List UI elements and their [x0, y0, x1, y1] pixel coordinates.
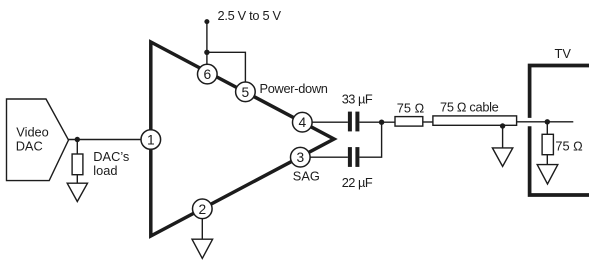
wire: node down to TV resistor [546, 122, 548, 135]
svg-text:75 Ω cable: 75 Ω cable [440, 100, 499, 115]
ground: cable shield [492, 148, 512, 167]
junction: TV input node [545, 119, 550, 124]
svg-text:3: 3 [296, 150, 304, 165]
pin 2 [193, 199, 213, 219]
svg-text:2.5 V to 5 V: 2.5 V to 5 V [218, 8, 282, 23]
wire: cable to TV [517, 121, 574, 123]
junction: output node [379, 120, 384, 125]
svg-text:Power-down: Power-down [260, 81, 328, 96]
pin 1 [141, 130, 161, 150]
wire: pin 2 to ground [201, 209, 203, 239]
wire: node down to load resistor [76, 140, 78, 155]
svg-text:SAG: SAG [293, 168, 320, 183]
svg-text:DAC: DAC [16, 138, 43, 153]
capacitor C1 33uF [348, 112, 352, 132]
op-amp U1 triangle [151, 42, 334, 236]
node: cable shield dot [500, 123, 505, 128]
pin 4 [293, 112, 313, 132]
resistor: DAC's load [72, 154, 83, 175]
resistor R2 75 ohm (TV) [542, 134, 553, 154]
svg-text:22 µF: 22 µF [342, 175, 373, 190]
cable: 75 ohm cable box [433, 116, 517, 125]
pin 5 [236, 82, 256, 102]
svg-text:6: 6 [203, 67, 211, 82]
svg-text:5: 5 [242, 85, 250, 100]
svg-text:2: 2 [198, 202, 206, 217]
supply node dot 2.5V-5V [204, 19, 209, 24]
wire: load resistor to ground [76, 175, 78, 184]
resistor R1 75 ohm [395, 117, 423, 127]
wire: supply down to pin 6 [206, 22, 208, 75]
ground: TV [537, 165, 558, 184]
svg-text:75 Ω: 75 Ω [555, 139, 583, 154]
wire: 33uF to 75 ohm resistor [359, 121, 395, 123]
svg-text:75 Ω: 75 Ω [397, 100, 425, 115]
node: DAC output junction dot [75, 137, 80, 142]
junction: supply branch [204, 50, 209, 55]
wire: shield to ground [502, 126, 504, 148]
TV box upper part [530, 66, 589, 118]
ground: below DAC's load [67, 183, 87, 201]
wire: pin 4 to 33uF [302, 121, 348, 123]
svg-text:TV: TV [555, 46, 572, 61]
svg-text:33 µF: 33 µF [342, 92, 373, 107]
wire: 22uF up to junction [359, 122, 381, 157]
wire: pin 3 to 22uF [300, 156, 348, 158]
svg-text:load: load [93, 163, 117, 178]
svg-text:1: 1 [147, 133, 155, 148]
wire: DAC output to pin 1 [69, 139, 151, 141]
wire: TV resistor to ground [546, 155, 548, 165]
svg-text:4: 4 [298, 115, 306, 130]
video DAC block [7, 99, 69, 181]
TV box lower part [530, 126, 589, 195]
pin 3 [291, 147, 311, 167]
capacitor C2 22uF [348, 147, 352, 167]
wire: R1 to cable [423, 121, 433, 123]
wire: branch to pin 5 [207, 52, 246, 92]
svg-text:Video: Video [16, 124, 49, 139]
ground: below pin 2 [192, 239, 213, 258]
pin 6 [198, 64, 218, 84]
